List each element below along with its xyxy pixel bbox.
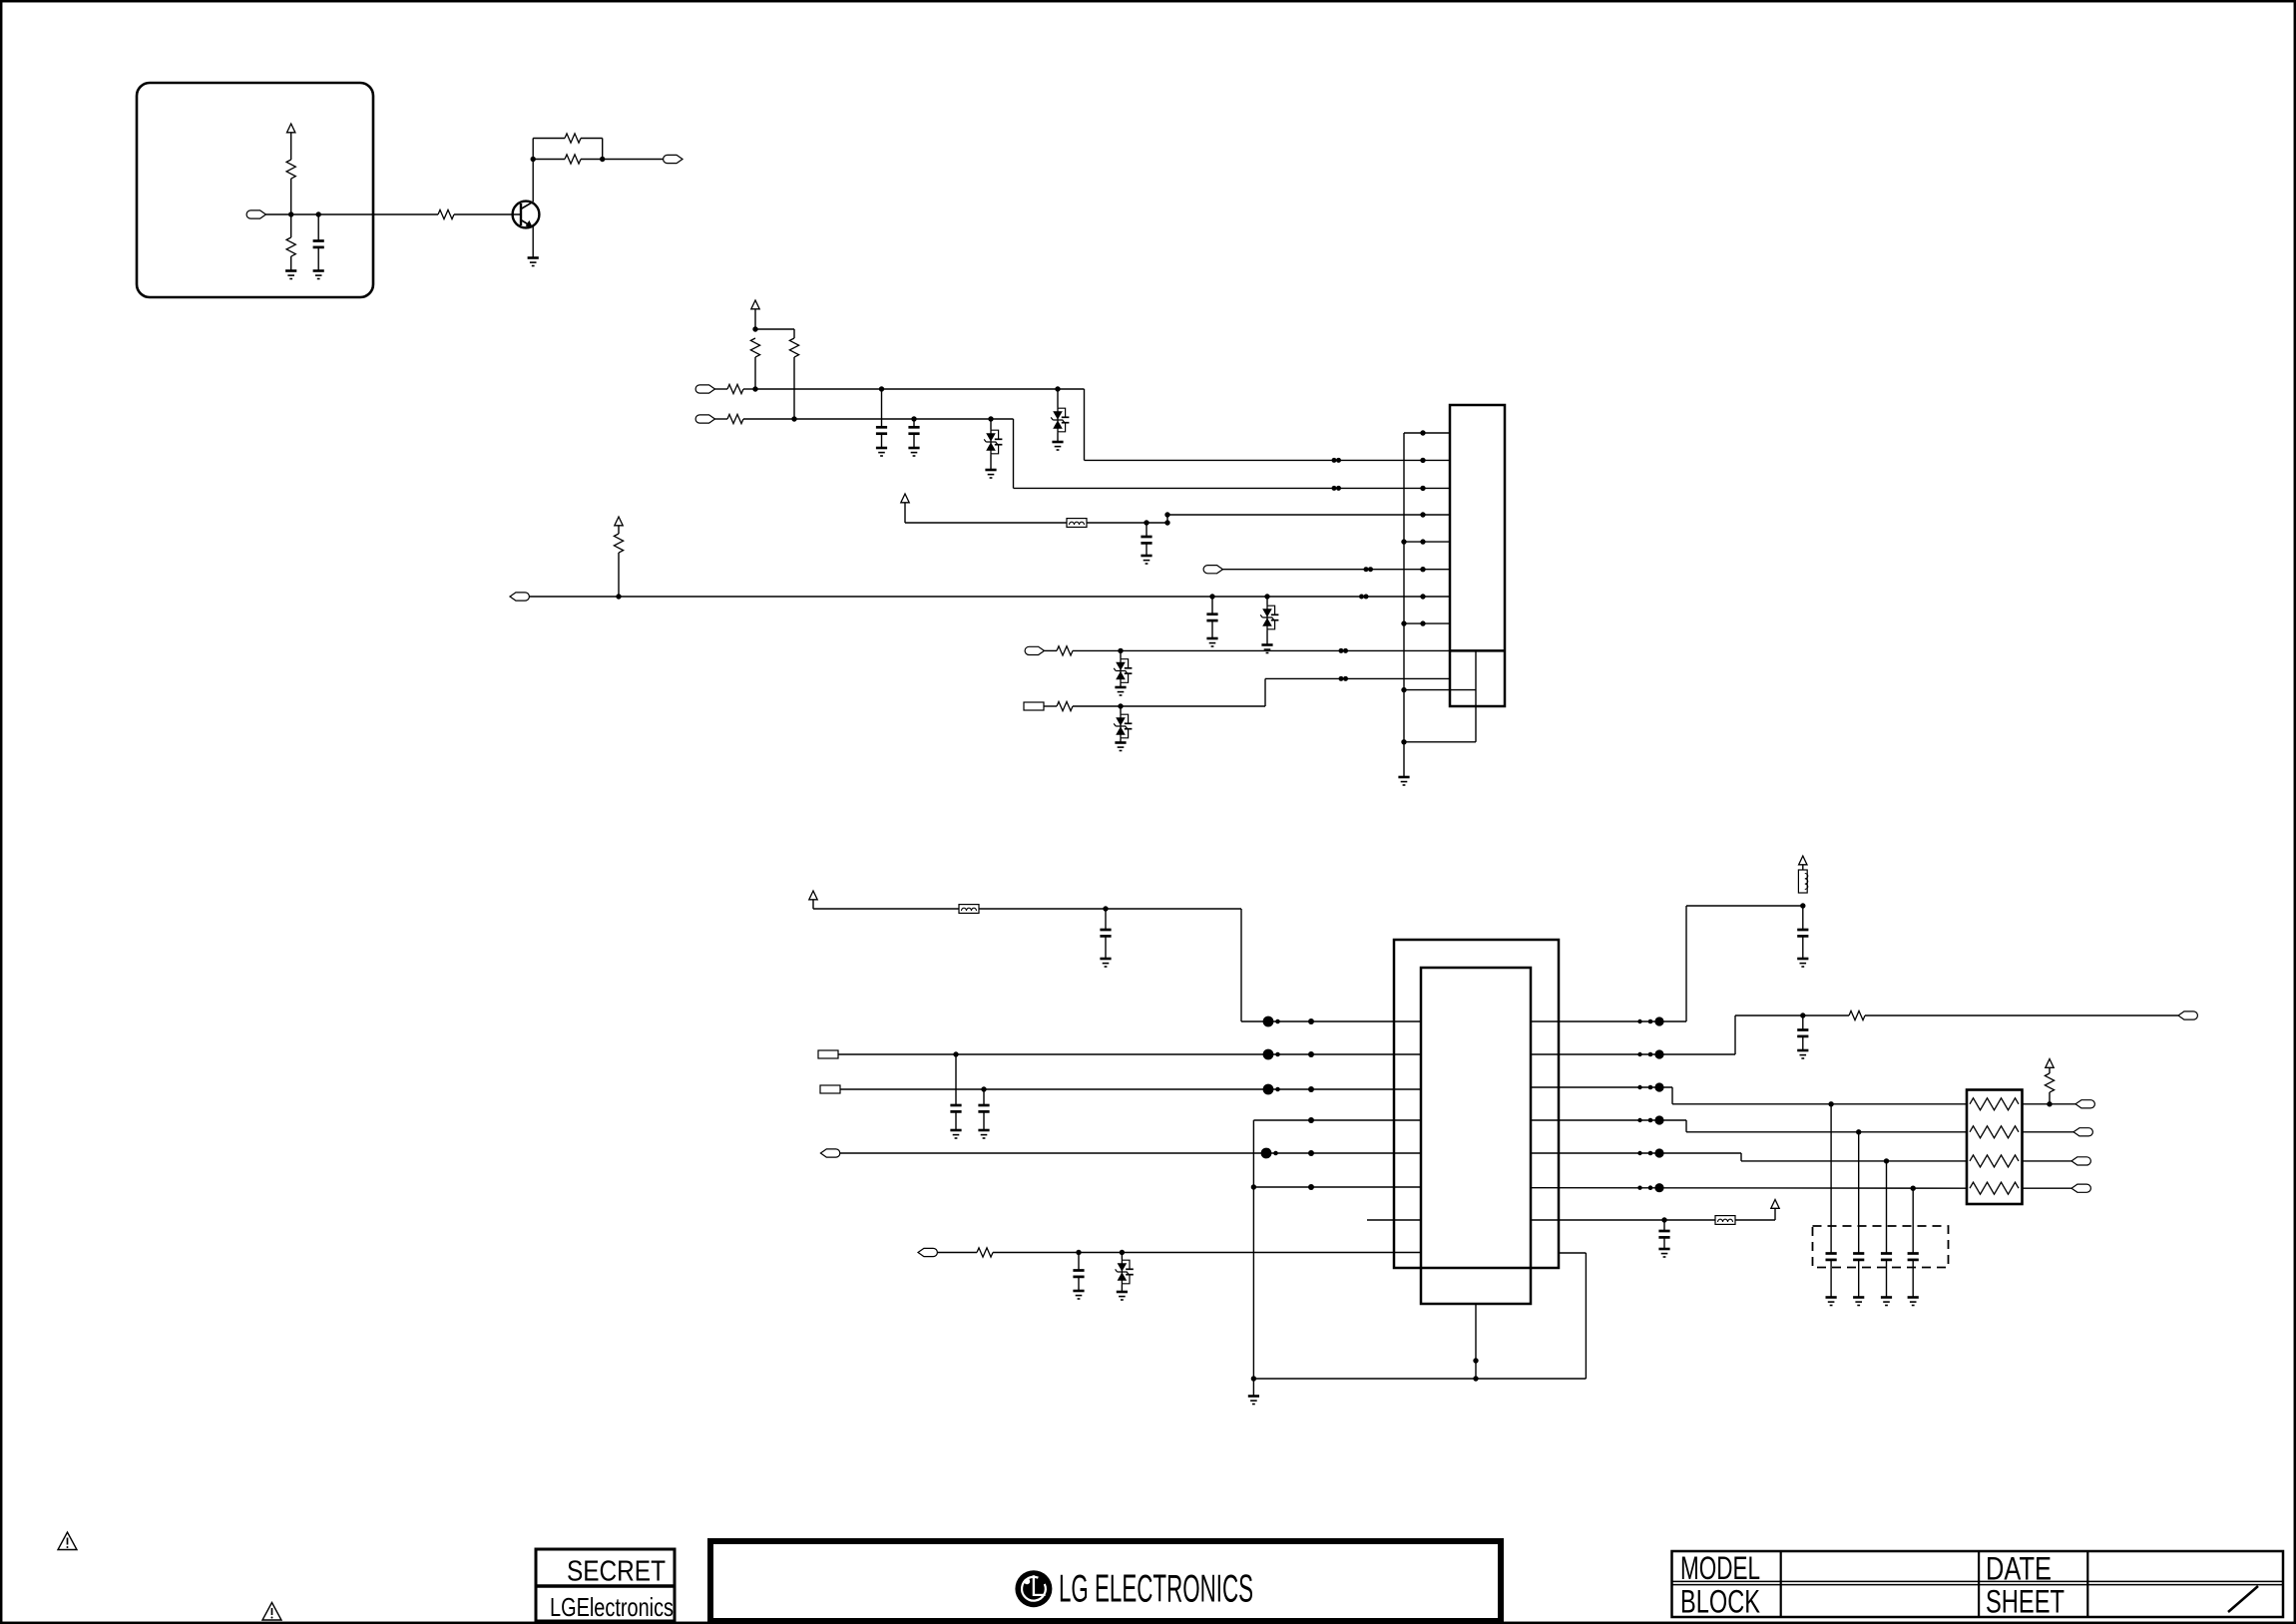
svg-text:LG ELECTRONICS: LG ELECTRONICS [1059,1568,1253,1611]
svg-text:BLOCK: BLOCK [1680,1584,1760,1620]
svg-text:SECRET: SECRET [567,1556,666,1588]
svg-text:DATE: DATE [1986,1551,2052,1587]
svg-text:LGElectronics: LGElectronics [550,1592,674,1622]
svg-text:MODEL: MODEL [1680,1550,1760,1586]
svg-text:SHEET: SHEET [1986,1584,2065,1620]
